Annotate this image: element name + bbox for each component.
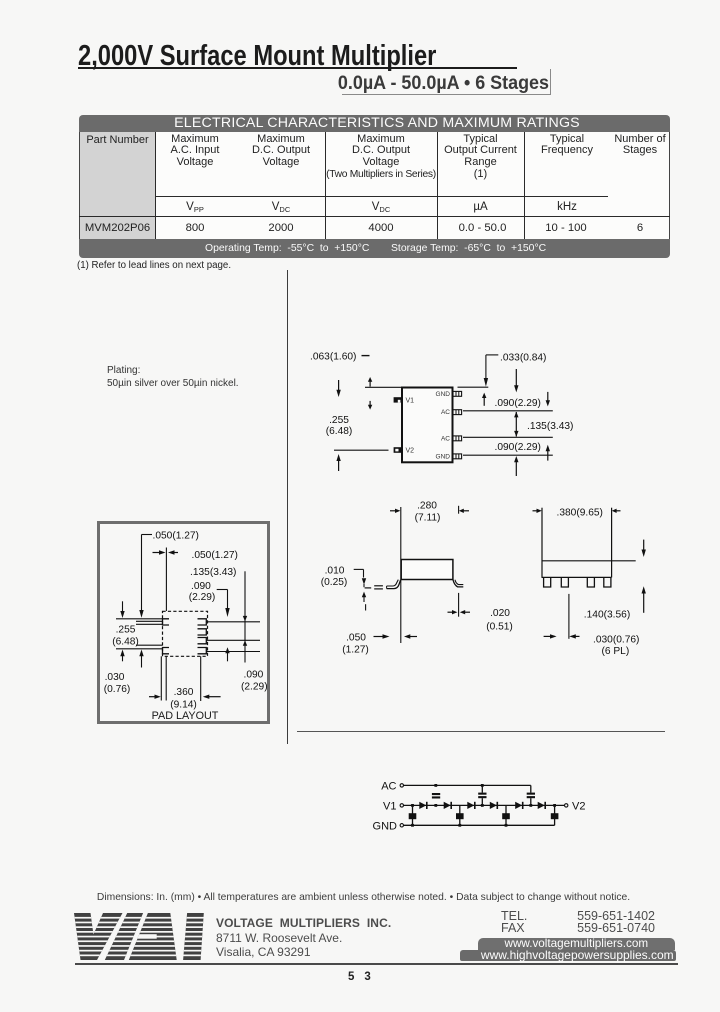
terminal AC: [400, 784, 403, 787]
dim arrow down at 548: [546, 392, 550, 407]
extension line V2 pin left: [334, 449, 389, 451]
pin label GND top: [436, 391, 451, 398]
pad right 4: [198, 648, 207, 654]
dimension label .033(0.84): [500, 352, 546, 363]
bottom dim verticals .360: [161, 656, 200, 701]
capacitor C6 (block): [502, 813, 510, 819]
wire AC rail: [404, 784, 531, 786]
node label GND: [373, 821, 398, 833]
pad left 1: [163, 619, 170, 625]
dimension label .140(3.56): [584, 609, 630, 620]
dim arrow .280 right: [459, 509, 469, 513]
pad dim label .090 (2.29) bottom right: [241, 669, 268, 692]
extension line body top left: [365, 386, 402, 388]
side view left extension vertical: [400, 507, 402, 643]
data row: 2000: [242, 222, 320, 234]
units row: uA: [438, 201, 523, 213]
dimensions note: [0, 892, 720, 903]
package body (top view): [402, 388, 453, 463]
table vertical line before frequency col: [524, 132, 525, 239]
pin label AC 1: [441, 409, 450, 416]
fax label: [501, 921, 525, 935]
data row: 800: [156, 222, 234, 234]
extension line AC pin 2: [463, 436, 553, 438]
pin label V2: [406, 447, 415, 454]
dimension label .255 (6.48) left: [326, 415, 353, 437]
plating note: [107, 364, 239, 391]
extension line AC pin 1: [463, 410, 553, 412]
up arrow at 141.5 lower: [139, 650, 143, 668]
dim arrow .063 upper: [368, 377, 372, 387]
dim arrow .140 lower: [642, 586, 646, 613]
end view bottom line: [542, 576, 612, 578]
node label AC: [381, 781, 396, 793]
pad extension line right 1: [206, 621, 260, 623]
dimension label .090(2.29) upper: [495, 398, 541, 409]
wire GND rail: [404, 824, 555, 826]
.255 arrows at 122.5: [120, 601, 124, 661]
dim arrows .360: [149, 695, 221, 699]
pin AC (right 3, hatched): [453, 436, 462, 441]
table body background: [79, 132, 670, 239]
pad dim label .050(1.27) second: [192, 550, 238, 561]
tel label: [501, 909, 527, 923]
pin V2 (left bottom): [394, 447, 402, 453]
table vertical line before current col: [437, 132, 438, 239]
dim arrows .020: [448, 610, 471, 614]
capacitor C3 with stubs (AC end): [527, 785, 535, 805]
side view right extension vertical top: [458, 506, 460, 514]
bottom bar text: storage temp: [391, 243, 546, 254]
data row: 4000: [326, 222, 436, 234]
header cell: Maximum D.C. Output Voltage: [242, 134, 320, 169]
leader .050 first: [139, 535, 152, 618]
dimension label .010 (0.25): [321, 565, 348, 588]
end view top line with right extension: [542, 560, 636, 562]
up arrow at 227 lower: [225, 647, 229, 661]
node label V2: [572, 801, 585, 813]
junction dot V1-C1: [434, 804, 437, 807]
bottom bar text: operating temp: [205, 243, 369, 254]
pin AC (right 2, hatched): [453, 410, 462, 415]
terminal GND: [400, 824, 403, 827]
capacitor C4 (block): [409, 813, 417, 819]
dimension label .030(0.76) (6 PL): [593, 635, 639, 657]
pad layout caption: [135, 710, 235, 722]
left extension lines top cluster: [116, 619, 163, 625]
right vertical arrows .135: [243, 616, 247, 646]
dim arrow .063 lower: [368, 401, 372, 410]
junction dot GND-S2: [458, 824, 461, 827]
web bar 2: [460, 950, 676, 962]
end view left side/extension: [541, 508, 543, 578]
dim arrow .380 right: [612, 509, 621, 513]
pad dim label .255 (6.48): [112, 624, 139, 647]
pin label GND bottom: [436, 453, 451, 460]
tel number: [560, 909, 655, 923]
pad left 2: [163, 648, 170, 654]
extension vertical pad left edge: [165, 548, 167, 612]
dimension label .280 (7.11): [415, 501, 441, 524]
leader .033: [484, 355, 499, 387]
dim arrow .010 up: [362, 592, 366, 602]
subtitle text: [184, 72, 549, 95]
header cell: Number of Stages: [598, 134, 682, 158]
web bar 1: [478, 938, 675, 949]
footnote: [77, 260, 231, 271]
dimension label .050 (1.27): [342, 633, 369, 656]
vertical divider line: [287, 270, 288, 744]
dim arrows .050: [374, 634, 418, 638]
dimension label .063(1.60): [310, 352, 370, 363]
dim arrows .050 pitch: [153, 550, 179, 554]
dimension label .090(2.29) lower: [495, 442, 541, 453]
side view body: [401, 560, 453, 580]
pin V1 (left top): [394, 397, 402, 402]
units row: kHz: [525, 201, 609, 213]
header cell: Maximum A.C. Input Voltage: [156, 134, 234, 169]
side view right lead (gull wing): [453, 580, 463, 587]
junction dot GND-S1: [411, 824, 414, 827]
side view right extension vertical bottom: [458, 593, 460, 617]
units row: Vdc(2): [326, 201, 436, 214]
header cell: Typical Output Current Range (1): [438, 134, 523, 181]
end view pin 2: [561, 577, 568, 587]
header cell: Typical Frequency: [525, 134, 609, 158]
pad dim label .360 (9.14): [170, 687, 197, 710]
data row: 10 - 100: [524, 222, 608, 234]
pad dim label .090 (2.29) right top: [189, 581, 216, 603]
right tall extension vertical: [244, 571, 246, 662]
end view pin 3: [587, 577, 594, 587]
pin label AC 2: [441, 435, 450, 442]
pad dim label .135(3.43): [190, 567, 236, 578]
pad dim label .050(1.27) first: [153, 531, 199, 542]
wire V1 rail: [404, 804, 565, 806]
seating plane dashes: [365, 586, 383, 589]
table bottom bar: [79, 239, 670, 259]
header cell: Part Number: [80, 134, 155, 146]
junction dot V1-C2: [481, 804, 484, 807]
diode D2: [444, 802, 452, 809]
pad right 3: [198, 638, 207, 644]
address line 1: [216, 931, 342, 945]
table vertical line before two-multiplier col: [325, 132, 326, 239]
dimension label .020 (0.51): [486, 608, 513, 632]
capacitor C2 with stubs: [478, 785, 486, 805]
junction dot V1-S4: [553, 804, 556, 807]
node label V1: [383, 801, 396, 813]
diode D4: [490, 802, 498, 809]
dim double arrow .135 at 516: [514, 412, 518, 437]
end view pin 1: [544, 577, 551, 587]
title underline: [78, 67, 517, 69]
terminal V2: [565, 804, 568, 807]
part number column gray background: [80, 132, 156, 239]
pad extension line right 2: [206, 639, 260, 641]
dim arrow .280 left: [390, 509, 400, 513]
pin label V1: [406, 397, 415, 404]
dimension label .135(3.43): [527, 421, 573, 432]
pin GND (right 4, hatched): [453, 454, 462, 459]
header cell: Maximum D.C. Output Voltage (Two Multipliers in Series): [326, 134, 436, 181]
extension line body top right: [458, 386, 489, 388]
leader .010: [354, 569, 364, 577]
terminal V1: [400, 804, 403, 807]
title: [78, 39, 436, 72]
end view pin 4: [604, 577, 611, 587]
company name: [216, 916, 391, 930]
subtitle box: [342, 69, 551, 95]
junction dot V1-C3: [529, 804, 532, 807]
address line 2: [216, 945, 311, 959]
dim arrow up below GND line: [514, 456, 518, 476]
capacitor C5 (block): [456, 813, 464, 819]
dim arrow down at 516 upper: [514, 369, 518, 392]
dim arrow .140 upper: [642, 540, 646, 557]
shunt stub 4: [554, 805, 556, 825]
dimension label .380(9.65): [557, 508, 603, 519]
table horizontal line above data row: [79, 216, 670, 217]
junction dot AC-C2: [481, 784, 484, 787]
junction dot V1-S1: [411, 804, 414, 807]
table horizontal line above units row: [155, 196, 608, 197]
leader .090 right: [217, 590, 230, 618]
data row: 6: [598, 222, 682, 234]
dim arrow .255 lower: [336, 454, 340, 471]
units row: Vdc: [242, 201, 320, 214]
dim arrows .030: [544, 634, 580, 638]
extension line GND pin bottom: [463, 454, 553, 456]
footer rule: [75, 963, 678, 965]
pad right 2: [198, 629, 207, 635]
dim arrow up at 484: [482, 393, 486, 406]
diode D5: [515, 802, 523, 809]
table header bar: [79, 115, 670, 132]
pad spacing extension vertical: [568, 594, 570, 639]
mid horizontal rule: [297, 731, 665, 732]
diode D6: [538, 802, 546, 809]
diode D3: [467, 802, 475, 809]
pad dim label .030 (0.76) bottom left: [104, 672, 131, 695]
dim arrow .010 down: [362, 578, 366, 587]
junction dot AC-C1: [434, 784, 437, 787]
data row: 0.0 - 50.0: [440, 222, 525, 234]
pin GND (right 1, hatched): [453, 391, 462, 396]
page number: [348, 971, 381, 983]
shunt stub 1: [412, 805, 414, 825]
shunt stub 2: [459, 805, 461, 825]
fax number: [560, 921, 655, 935]
footprint dashed outline: [163, 611, 208, 656]
left extension lines bottom cluster: [116, 645, 163, 649]
dim arrow .255 upper: [336, 380, 340, 397]
diode D1: [419, 802, 427, 809]
data row: part number MVM202P06: [80, 222, 155, 234]
dim arrow .380 left: [533, 509, 542, 513]
end view right side/extension: [611, 508, 613, 578]
shunt stub 3: [505, 805, 507, 825]
capacitor C1 plates: [432, 793, 440, 799]
units row: Vpp: [156, 201, 234, 214]
table vertical line after part number: [155, 132, 157, 239]
side view left lead (gull wing): [387, 580, 401, 589]
pad extension line right 3: [206, 651, 260, 653]
pad layout outer box: [97, 521, 270, 724]
dim arrow up at 548 lower: [546, 445, 550, 461]
capacitor C7 (block): [551, 813, 559, 819]
junction dot GND-S3: [505, 824, 508, 827]
center dash below: [365, 604, 367, 610]
pad right 1: [198, 619, 207, 625]
